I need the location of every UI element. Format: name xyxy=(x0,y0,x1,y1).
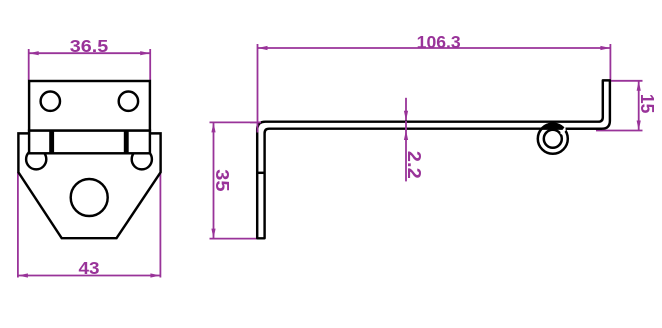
curl spiral gap notch xyxy=(561,128,566,134)
curl inner circle xyxy=(544,130,562,148)
arm bottom line right of curl xyxy=(566,127,602,129)
106.3 left extension overrun into corner xyxy=(257,124,259,133)
svg-text:106.3: 106.3 xyxy=(417,32,461,52)
curl outer circle (rolled knuckle, side view) xyxy=(538,124,568,154)
dimension 35 (leg height) xyxy=(210,122,275,238)
dimension 2.2 (material thickness) xyxy=(405,98,407,182)
dimension 15 (hook height) xyxy=(596,81,643,131)
svg-text:2.2: 2.2 xyxy=(404,151,424,179)
big hole in bottom leaf xyxy=(71,179,108,216)
2.2 extension segment over strip xyxy=(405,121,407,130)
right screw hole in top leaf xyxy=(119,92,138,111)
svg-text:15: 15 xyxy=(637,94,657,114)
svg-text:36.5: 36.5 xyxy=(70,36,109,56)
left screw hole in top leaf xyxy=(41,92,60,111)
top hinge leaf (front view) xyxy=(29,81,150,131)
right knuckle bar xyxy=(124,129,129,154)
left knuckle bar xyxy=(49,129,54,154)
left pin knob circle xyxy=(26,149,46,169)
svg-text:35: 35 xyxy=(212,169,232,192)
svg-text:43: 43 xyxy=(79,258,100,278)
dimension 106.3 (arm length) xyxy=(258,44,611,137)
side view bent strip profile xyxy=(257,80,610,238)
bottom hinge leaf (front view trapezoid plate) xyxy=(18,133,160,238)
right pin knob circle xyxy=(132,149,152,169)
dimension 43 (bottom leaf width) xyxy=(18,172,161,277)
curl top merge cap xyxy=(540,123,567,130)
leg edge tick (silhouette edge) xyxy=(257,172,264,174)
hinge knuckle band xyxy=(29,131,150,154)
dimension 36.5 (top leaf width) xyxy=(29,49,151,80)
35 top extension overrun at corner xyxy=(250,121,261,123)
